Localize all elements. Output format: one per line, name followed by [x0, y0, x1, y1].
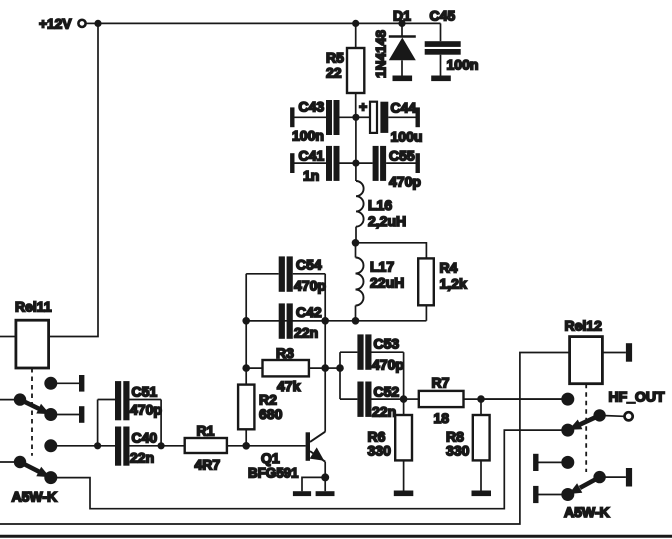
inductor L16: [356, 181, 406, 243]
wire C53/C52 right rail: [403, 352, 405, 399]
node junction L17 bottom: [352, 317, 360, 325]
svg-text:680: 680: [259, 406, 283, 422]
svg-text:C54: C54: [296, 257, 322, 273]
wire left A5W-K to C40: [51, 445, 98, 447]
node contact 4: [561, 488, 574, 501]
node +12V terminal: [39, 15, 102, 31]
capacitor C42: [246, 303, 325, 340]
node junction C51/C40 left: [94, 442, 101, 449]
wire feedback left rail: [245, 274, 247, 385]
ground (R8): [472, 491, 492, 497]
capacitor C40: [98, 427, 162, 466]
wire feedback right rail: [324, 274, 326, 432]
node contact in: [561, 393, 574, 406]
node arm1: [14, 393, 26, 405]
node junction R3 left: [242, 364, 250, 372]
node junction L16/L17/R4: [352, 239, 360, 247]
svg-text:100n: 100n: [447, 57, 479, 73]
svg-text:C55: C55: [389, 148, 415, 164]
svg-text:R5: R5: [326, 50, 344, 66]
svg-text:HF_OUT: HF_OUT: [609, 389, 665, 405]
ground (R6): [394, 491, 414, 497]
node junction R5/top-rail: [352, 20, 359, 27]
node junction C53 rail: [336, 364, 344, 372]
capacitor C45: [425, 7, 479, 75]
node junction R2/base: [242, 442, 250, 450]
resistor R3: [246, 345, 325, 394]
svg-text:22: 22: [326, 65, 342, 81]
node contact 2: [561, 424, 574, 437]
node contact mid: [44, 408, 57, 421]
svg-text:C40: C40: [132, 430, 158, 446]
node contact 3: [561, 456, 574, 469]
node junction R3 right: [321, 364, 329, 372]
node junction D1/top-rail: [398, 20, 405, 27]
node junction C40 right: [158, 442, 165, 449]
resistor R6: [368, 399, 413, 490]
svg-text:C52: C52: [374, 384, 400, 400]
svg-text:R1: R1: [197, 423, 215, 439]
diode D1: [373, 7, 416, 78]
svg-text:A5W-K: A5W-K: [12, 488, 58, 504]
relay Rel12: [0, 318, 632, 525]
node contact C40: [44, 439, 57, 452]
capacitor C44 (electrolytic): [356, 99, 423, 145]
node arm2: [14, 456, 26, 468]
wire arm2 feed: [0, 461, 20, 463]
svg-text:C42: C42: [296, 304, 322, 320]
capacitor C52: [340, 382, 404, 420]
wire Rel11 dashed link: [31, 368, 33, 456]
border frame bottom: [0, 535, 672, 538]
node junction Q1 emitter: [321, 473, 329, 481]
wire stub to C53 rail: [325, 367, 340, 369]
wire tank bottom rail: [246, 320, 426, 322]
ground (D1): [393, 76, 413, 82]
node junction C52/R7/R6: [400, 395, 408, 403]
node junction C42 right: [321, 317, 329, 325]
capacitor C43: [290, 99, 356, 144]
svg-text:L16: L16: [368, 197, 392, 213]
svg-text:100n: 100n: [292, 128, 324, 144]
wire node to R4 top: [356, 243, 427, 259]
switch A5W-K left: [0, 375, 84, 504]
capacitor C54: [246, 256, 326, 293]
wire coil left: [0, 353, 570, 525]
wire coil right: [602, 352, 626, 354]
resistor R4: [418, 258, 467, 320]
svg-text:Rel11: Rel11: [15, 299, 52, 315]
svg-text:470p: 470p: [372, 357, 404, 373]
ground (Q1 left): [293, 491, 311, 496]
wire C51/C40 right rail: [160, 400, 162, 446]
svg-text:47k: 47k: [277, 378, 301, 394]
ground (Q1 right): [316, 491, 335, 496]
svg-text:R3: R3: [276, 345, 294, 361]
inductor L17: [356, 243, 405, 321]
capacitor C51: [98, 381, 162, 420]
svg-text:470p: 470p: [389, 173, 421, 189]
svg-text:C44: C44: [391, 100, 417, 116]
svg-text:22n: 22n: [130, 450, 154, 466]
node junction C41/C55: [352, 160, 359, 167]
wire A5W-K bottom cross-link: [51, 430, 568, 509]
svg-text:BFG591: BFG591: [248, 465, 299, 481]
terminal HF_OUT: [600, 414, 624, 417]
svg-text:C41: C41: [299, 148, 325, 164]
svg-text:1,2k: 1,2k: [440, 276, 467, 292]
svg-text:22uH: 22uH: [370, 275, 404, 291]
svg-text:22n: 22n: [294, 325, 318, 341]
node contact bottom: [44, 471, 57, 484]
svg-text:4R7: 4R7: [195, 457, 221, 473]
switch A5W-K right: [533, 389, 665, 521]
node arm2 right: [593, 471, 605, 483]
svg-text:470p: 470p: [130, 402, 162, 418]
resistor R5: [326, 23, 364, 117]
wire contact1 right to R7: [481, 398, 568, 400]
svg-text:C43: C43: [299, 99, 325, 115]
svg-text:2,2uH: 2,2uH: [368, 213, 406, 229]
svg-text:R4: R4: [440, 260, 458, 276]
ground (C45): [431, 76, 451, 82]
wire +12V top rail: [98, 22, 441, 24]
wire C53/C52 left rail: [339, 352, 341, 399]
capacitor C53: [340, 334, 404, 372]
svg-text:Rel12: Rel12: [565, 318, 603, 334]
svg-text:C53: C53: [374, 336, 400, 352]
svg-text:L17: L17: [370, 259, 394, 275]
svg-text:1N4148: 1N4148: [373, 30, 389, 78]
svg-text:100u: 100u: [391, 129, 423, 145]
svg-text:A5W-K: A5W-K: [564, 504, 610, 520]
resistor R8: [446, 399, 490, 490]
wire R5 node to L16: [355, 117, 357, 163]
svg-text:D1: D1: [393, 7, 411, 23]
svg-text:330: 330: [446, 443, 470, 459]
wire arm1 feed: [0, 399, 20, 401]
svg-text:C51: C51: [132, 384, 158, 400]
wire arm1 arrow: [20, 400, 39, 409]
svg-text:330: 330: [368, 443, 392, 459]
wire C51/C40 left rail: [97, 400, 99, 446]
resistor R1: [161, 423, 306, 473]
svg-text:1n: 1n: [303, 168, 319, 184]
svg-text:+12V: +12V: [39, 15, 72, 31]
svg-text:R7: R7: [432, 375, 450, 391]
node arm HF: [593, 409, 605, 421]
node junction C43/C44: [352, 114, 359, 121]
relay Rel11: [15, 299, 52, 369]
capacitor C41: [290, 146, 356, 184]
wire emitter to grounds: [302, 477, 325, 491]
node junction C42 left: [242, 317, 250, 325]
svg-text:18: 18: [434, 410, 450, 426]
wire Rel12 dashed link: [585, 384, 587, 472]
svg-text:+: +: [359, 99, 367, 115]
capacitor C55: [356, 146, 421, 189]
svg-text:C45: C45: [430, 7, 456, 23]
svg-text:470p: 470p: [294, 278, 326, 294]
wire +12V down to Rel11: [16, 23, 98, 336]
resistor R7: [404, 375, 568, 427]
node contact up: [44, 377, 57, 390]
wire Rel11 coil left stub: [0, 336, 16, 338]
svg-text:22n: 22n: [372, 404, 396, 420]
node junction R8 top: [477, 395, 485, 403]
resistor R2: [238, 385, 282, 446]
transistor Q1: [248, 432, 325, 481]
